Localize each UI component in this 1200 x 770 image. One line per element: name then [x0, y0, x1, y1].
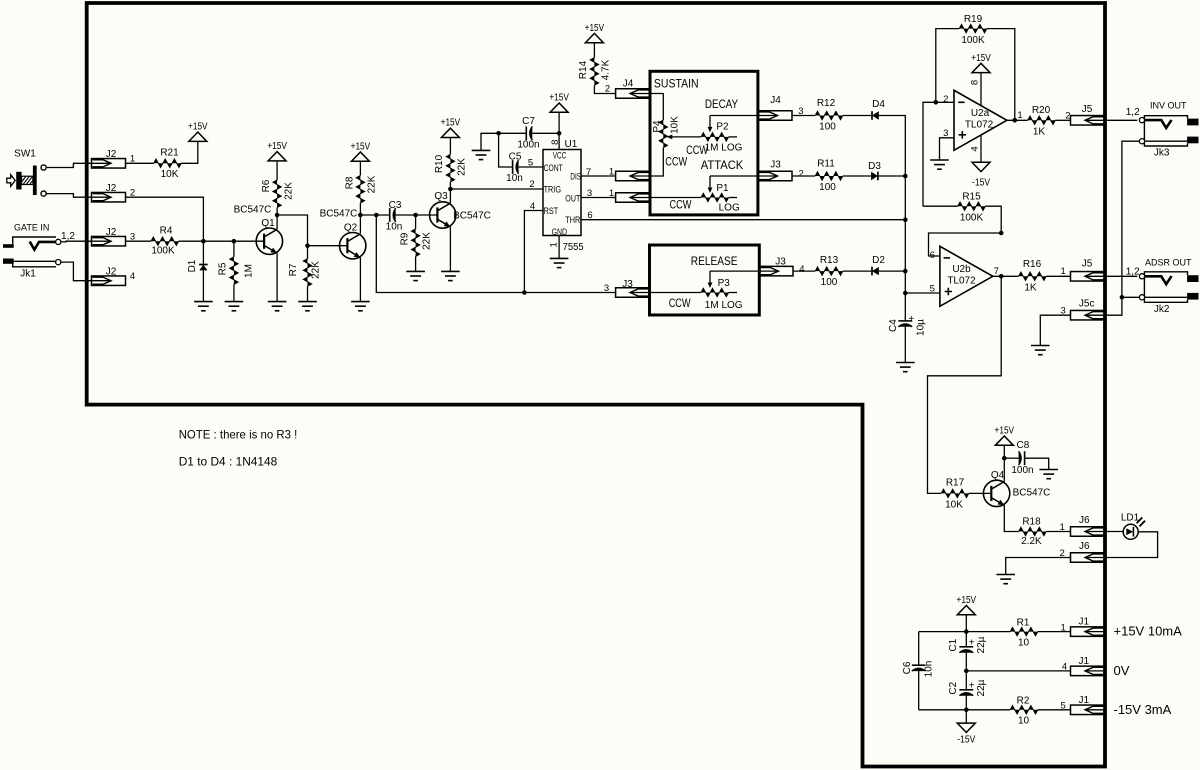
wire R12 to D4: [843, 115, 872, 117]
wire C5 to CONT: [519, 166, 543, 168]
connector J1 pin 4: [1071, 666, 1105, 676]
node Q3 collector: [448, 187, 453, 192]
svg-text:0V: 0V: [1114, 663, 1130, 678]
connector J4 pin 3: [758, 111, 792, 121]
wire Q3 emitter to ground: [449, 227, 451, 272]
svg-text:J5: J5: [1082, 104, 1093, 115]
wire U2a pin2 node: [923, 102, 954, 206]
svg-text:GATE IN: GATE IN: [14, 222, 49, 232]
connector J2 pin 1: [92, 159, 126, 169]
svg-text:TL072: TL072: [947, 275, 976, 286]
node long wire tap: [374, 213, 379, 218]
wire J6 to LED: [1105, 531, 1124, 533]
svg-text:R10: R10: [434, 154, 445, 173]
svg-text:VCC: VCC: [553, 150, 567, 160]
resistor R15: [923, 205, 958, 207]
svg-text:SW1: SW1: [14, 148, 36, 159]
svg-text:CCW: CCW: [665, 157, 687, 169]
resistor R4: [151, 237, 179, 245]
wire U2b out to R16: [993, 275, 1019, 277]
svg-text:R21: R21: [160, 148, 179, 159]
node R19 left: [934, 100, 939, 105]
svg-text:R14: R14: [578, 60, 589, 79]
svg-text:CONT: CONT: [544, 163, 564, 173]
wire U1 VCC pin 8: [558, 112, 560, 149]
wire J3 pin3 to P3: [650, 292, 701, 294]
svg-text:-15V: -15V: [972, 178, 990, 189]
svg-text:R5: R5: [217, 262, 228, 275]
svg-text:1: 1: [609, 166, 614, 177]
svg-text:ADSR OUT: ADSR OUT: [1145, 257, 1192, 267]
svg-text:1M: 1M: [243, 264, 254, 278]
svg-text:R19: R19: [964, 14, 983, 25]
ground (R7): [298, 301, 317, 303]
svg-text:R4: R4: [160, 226, 173, 237]
ground (C8): [1039, 469, 1058, 471]
svg-text:1: 1: [609, 188, 614, 199]
connector J2 pin 3: [92, 236, 126, 246]
switch SW1: [33, 166, 37, 196]
jack Jk3: [1144, 116, 1187, 130]
svg-text:P4: P4: [652, 120, 663, 133]
connector J1 pin 5: [1071, 705, 1105, 715]
svg-text:4: 4: [1062, 662, 1067, 673]
svg-text:4: 4: [130, 271, 135, 282]
svg-text:R18: R18: [1022, 516, 1041, 527]
transistor Q1: [256, 228, 282, 254]
diode D2: [871, 267, 873, 276]
ground (R9): [406, 270, 425, 272]
svg-text:2: 2: [943, 94, 948, 105]
wire Q3 collector to TRIG: [450, 188, 543, 190]
svg-text:10: 10: [1018, 716, 1030, 727]
diode D3: [877, 172, 879, 181]
svg-text:R2: R2: [1017, 696, 1030, 707]
transistor Q4: [983, 480, 1009, 506]
wiper P1: [709, 176, 711, 189]
wire J4 pin2 to P4: [650, 94, 664, 121]
node 0V rail: [964, 669, 969, 674]
svg-text:BC547C: BC547C: [1013, 488, 1051, 499]
svg-text:J4: J4: [770, 95, 781, 106]
connector J3 pin 1: [616, 193, 650, 203]
node U2b output: [999, 274, 1004, 279]
node gate junction D1: [201, 239, 206, 244]
wire U2a pin8 to +15V: [980, 73, 982, 106]
svg-text:BC547C: BC547C: [234, 204, 272, 215]
ground (Q1): [268, 301, 287, 303]
resistor R20: [1028, 116, 1056, 124]
svg-text:Jk3: Jk3: [1154, 147, 1170, 158]
connector J2 pin 4: [92, 276, 126, 286]
svg-text:CCW: CCW: [669, 298, 691, 310]
svg-text:R11: R11: [817, 158, 835, 169]
svg-text:10n: 10n: [386, 222, 403, 233]
node Q4 collector C8: [1002, 456, 1007, 461]
svg-text:+15V: +15V: [441, 118, 461, 129]
capacitor C4 10u: [898, 320, 912, 322]
svg-text:BC547C: BC547C: [320, 208, 358, 219]
wire P1 wiper to J3 pin2: [710, 175, 758, 177]
jack Jk1: [13, 237, 56, 244]
ground (U1): [550, 257, 569, 259]
potentiometer P4: [659, 120, 667, 148]
svg-text:1K: 1K: [1024, 282, 1037, 293]
svg-text:DIS: DIS: [570, 171, 581, 181]
svg-text:R17: R17: [946, 478, 965, 489]
wire summing to U2b plus: [905, 292, 940, 294]
resistor R18: [1019, 527, 1047, 535]
wire J5c to ground: [1040, 315, 1070, 345]
wire U2a pin3 to ground: [940, 138, 955, 160]
diode D1: [202, 241, 204, 271]
capacitor C6 10n: [918, 632, 920, 666]
svg-text:R9: R9: [400, 232, 411, 245]
svg-text:100K: 100K: [961, 35, 985, 46]
svg-text:U1: U1: [565, 139, 578, 150]
svg-text:LOG: LOG: [719, 203, 740, 214]
wire D4 to summing node: [879, 116, 906, 322]
label minus (U2a): [958, 101, 964, 103]
svg-text:J3: J3: [622, 279, 633, 290]
wire Q2 node to J3 pin3 (long): [376, 215, 615, 293]
svg-text:R12: R12: [817, 98, 836, 109]
ground (U2a+): [930, 159, 949, 161]
wire U2b out to R17: [928, 276, 1002, 493]
wire C5 branch: [499, 133, 513, 167]
wire P2 wiper to J4 pin3: [710, 115, 758, 117]
node summing D3: [903, 174, 908, 179]
svg-text:R16: R16: [1023, 259, 1042, 270]
svg-text:R8: R8: [344, 176, 355, 189]
svg-text:2: 2: [529, 179, 534, 190]
wire U2b feedback: [929, 233, 1002, 256]
wire R17 to Q4 base: [969, 492, 992, 494]
svg-text:C8: C8: [1017, 440, 1030, 451]
node C7/C5: [496, 131, 501, 136]
capacitor C7: [525, 126, 527, 140]
svg-text:Q2: Q2: [344, 222, 358, 233]
ground (D1): [194, 301, 213, 303]
svg-text:ATTACK: ATTACK: [701, 160, 744, 172]
wire R18 to J6: [1046, 531, 1070, 533]
svg-text:100: 100: [819, 122, 836, 133]
wire R4 to Q1 base: [179, 240, 265, 242]
svg-text:C2: C2: [948, 681, 959, 694]
wire D3 to summing node: [878, 175, 905, 177]
svg-text:C7: C7: [522, 116, 535, 127]
svg-text:1M LOG: 1M LOG: [705, 142, 743, 153]
connector J4 pin 2: [616, 89, 650, 99]
node Q2 collector: [358, 213, 363, 218]
wire Q1 collector to R7: [277, 215, 307, 259]
wire Q1 collector: [276, 215, 278, 229]
connector J3 pin 2: [758, 171, 792, 181]
svg-text:10: 10: [1018, 637, 1030, 648]
wire Jk1 sleeve to J2 pin4: [61, 262, 92, 281]
node U2b feedback: [999, 231, 1004, 236]
wire SW1 bottom to J2 pin2: [47, 194, 92, 198]
transistor Q2: [340, 233, 366, 259]
svg-text:J3: J3: [770, 160, 781, 171]
wire Q4 collector: [1003, 458, 1005, 481]
node R19 output: [1013, 118, 1018, 123]
wire Q2 collector to C3: [360, 214, 389, 216]
svg-text:+15V: +15V: [188, 122, 208, 133]
svg-text:+15V 10mA: +15V 10mA: [1114, 624, 1183, 639]
resistor R14: [593, 43, 595, 58]
wire R2 to J1 pin5: [1038, 709, 1071, 711]
svg-text:TL072: TL072: [965, 120, 994, 131]
svg-text:R6: R6: [261, 179, 272, 192]
node R7 tap to Q2 base: [305, 243, 310, 248]
svg-text:1M LOG: 1M LOG: [705, 300, 743, 311]
svg-text:+15V: +15V: [995, 426, 1015, 437]
connector J4 pin 1: [616, 171, 650, 181]
wire J5 to Jk2 tip: [1105, 275, 1138, 277]
svg-text:22K: 22K: [283, 182, 294, 200]
svg-text:100K: 100K: [151, 245, 175, 256]
connector J6 pin 1: [1071, 527, 1105, 537]
wire J3 pin4 to R13: [793, 270, 815, 272]
capacitor C2 22u: [959, 689, 973, 691]
svg-text:-15V 3mA: -15V 3mA: [1114, 702, 1172, 717]
svg-text:R15: R15: [962, 192, 981, 203]
resistor R17: [941, 489, 969, 497]
svg-text:C5: C5: [509, 151, 522, 162]
op-amp U2b: [940, 246, 993, 306]
transistor Q3: [430, 202, 456, 228]
svg-text:J5c: J5c: [1079, 298, 1095, 309]
svg-text:+: +: [908, 314, 914, 325]
svg-text:5: 5: [930, 284, 935, 295]
wire U2a out to R20: [1007, 119, 1028, 121]
svg-text:J3: J3: [775, 256, 786, 267]
resistor R9: [415, 215, 417, 229]
wiper P2: [709, 116, 711, 128]
svg-text:P1: P1: [716, 183, 729, 194]
svg-text:+15V: +15V: [549, 93, 569, 104]
label minus (U2b): [944, 257, 950, 259]
wire 0V rail: [966, 670, 1070, 672]
connector J5c pin 3: [1071, 310, 1105, 320]
resistor R12: [815, 111, 843, 119]
wire Q1 emitter to ground: [276, 253, 278, 302]
svg-text:100K: 100K: [960, 213, 984, 224]
svg-text:R7: R7: [288, 263, 299, 276]
svg-text:DECAY: DECAY: [705, 99, 738, 111]
wire DIS to J4 pin1: [581, 175, 616, 177]
svg-text:C3: C3: [389, 200, 402, 211]
resistor R19: [936, 29, 959, 103]
svg-text:Jk1: Jk1: [20, 269, 36, 280]
panel box RELEASE: [650, 245, 760, 315]
wire Jk2 sleeve: [1122, 296, 1140, 298]
wiper P3: [709, 271, 711, 283]
svg-text:Jk2: Jk2: [1154, 304, 1170, 315]
connector J5 pin 2: [1071, 116, 1105, 126]
svg-text:J1: J1: [1079, 656, 1090, 667]
node C3/R9/Q3: [413, 213, 418, 218]
wire C3 to Q3 base: [396, 214, 438, 216]
resistor R11: [815, 172, 843, 180]
svg-text:+15V: +15V: [351, 142, 371, 153]
svg-text:RST: RST: [544, 206, 559, 216]
resistor R7: [303, 259, 311, 287]
svg-text:J5: J5: [1082, 259, 1093, 270]
svg-text:22µ: 22µ: [976, 679, 987, 696]
wire C7 right to VCC: [532, 132, 559, 134]
svg-text:U2b: U2b: [952, 264, 971, 275]
svg-text:P2: P2: [716, 121, 729, 132]
node +15V rail: [964, 629, 969, 634]
svg-text:2: 2: [605, 84, 610, 95]
node summing to U2b+: [903, 291, 908, 296]
svg-text:J6: J6: [1079, 515, 1090, 526]
svg-text:22µ: 22µ: [976, 636, 987, 653]
svg-text:1K: 1K: [1033, 127, 1046, 138]
jack Jk2: [1144, 272, 1187, 286]
resistor R21: [154, 159, 182, 167]
connector J2 pin 2: [92, 192, 126, 202]
svg-text:THR: THR: [565, 215, 580, 225]
svg-text:C6: C6: [902, 661, 913, 674]
svg-text:10K: 10K: [670, 116, 681, 134]
resistor R5: [233, 241, 235, 257]
svg-text:4: 4: [799, 264, 804, 275]
svg-text:J2: J2: [106, 183, 117, 194]
node VCC/C7: [557, 131, 562, 136]
panel box SUSTAIN: [650, 71, 758, 215]
wire OUT to J3 pin1: [581, 197, 616, 199]
svg-text:+15V: +15V: [585, 23, 605, 34]
svg-text:10µ: 10µ: [915, 319, 926, 336]
node Jk2 sleeve: [1120, 295, 1125, 300]
wire J4 pin3 to R12: [792, 115, 815, 117]
svg-text:R20: R20: [1032, 105, 1051, 116]
capacitor C5: [512, 160, 514, 174]
svg-text:SUSTAIN: SUSTAIN: [654, 78, 699, 90]
wire RST branch: [524, 211, 543, 293]
svg-text:R1: R1: [1017, 617, 1030, 628]
svg-text:6: 6: [930, 250, 935, 261]
wire J6 pin2 to ground: [1006, 558, 1071, 575]
svg-text:J2: J2: [106, 227, 117, 238]
svg-text:LD1: LD1: [1121, 512, 1140, 523]
wire D2 to summing node: [879, 270, 906, 272]
potentiometer P2: [701, 133, 729, 141]
wire R21 to +15V: [181, 141, 198, 163]
svg-text:3: 3: [604, 283, 609, 294]
wire C7 left to ground: [481, 133, 526, 150]
wire Q2 collector: [359, 215, 361, 234]
svg-text:NOTE : there is no R3 !: NOTE : there is no R3 !: [179, 427, 298, 441]
svg-text:1: 1: [1061, 622, 1066, 633]
resistor R10: [449, 182, 451, 189]
svg-text:+: +: [969, 681, 975, 692]
wire +15V rail: [919, 631, 1011, 633]
wire LED to J6 pin2: [1105, 532, 1158, 558]
svg-text:D1: D1: [187, 259, 198, 272]
wire J2 pin1 to R21: [126, 162, 154, 164]
connector J6 pin 2: [1071, 553, 1105, 563]
wire Jk1 tip to J2 pin3: [61, 240, 92, 243]
svg-text:10K: 10K: [945, 499, 963, 510]
wire P3 wiper to J3 pin4: [710, 270, 759, 272]
wire SW1 top to J2 pin1: [47, 163, 92, 167]
svg-text:D4: D4: [872, 99, 885, 110]
svg-text:22K: 22K: [456, 158, 467, 176]
svg-text:1: 1: [1017, 110, 1022, 121]
svg-text:Q1: Q1: [261, 218, 275, 229]
svg-text:1: 1: [1061, 266, 1066, 277]
resistor R16: [1019, 272, 1047, 280]
wire R16 to J5: [1046, 275, 1070, 277]
svg-text:J2: J2: [106, 149, 117, 160]
svg-text:1: 1: [549, 242, 560, 247]
svg-text:7555: 7555: [563, 242, 584, 253]
svg-text:J1: J1: [1079, 695, 1090, 706]
svg-text:C4: C4: [888, 319, 899, 332]
resistor R13: [815, 267, 843, 275]
svg-text:Q3: Q3: [434, 191, 448, 202]
svg-text:100: 100: [819, 182, 836, 193]
svg-text:100n: 100n: [517, 139, 539, 150]
svg-text:22K: 22K: [421, 232, 432, 250]
power -15V (supply): [965, 710, 967, 723]
svg-text:100: 100: [821, 277, 838, 288]
svg-text:BC547C: BC547C: [453, 211, 491, 222]
IC U1 7555 box: [543, 150, 581, 236]
resistor R1: [1010, 627, 1038, 635]
svg-text:5: 5: [1061, 701, 1066, 712]
wire Q3 collector: [449, 189, 451, 203]
power -15V (U2a): [980, 135, 982, 162]
svg-text:1: 1: [1060, 522, 1065, 533]
svg-text:INV OUT: INV OUT: [1150, 100, 1187, 110]
svg-text:10n: 10n: [506, 173, 523, 184]
wire R7 node to Q2 base: [308, 245, 348, 247]
resistor R8: [359, 203, 361, 215]
capacitor C3: [389, 208, 391, 222]
svg-text:U2a: U2a: [971, 108, 990, 119]
ground (Q3): [441, 270, 460, 272]
ground (Q2): [351, 301, 370, 303]
svg-text:P3: P3: [718, 278, 731, 289]
svg-text:C1: C1: [948, 638, 959, 651]
wire J5 to Jk3 tip: [1105, 119, 1138, 121]
wire R13 to D2: [843, 270, 872, 272]
capacitor C8: [1004, 457, 1018, 459]
op-amp U2a: [954, 90, 1007, 150]
potentiometer P1: [701, 193, 729, 201]
potentiometer P3: [701, 288, 729, 296]
resistor R2: [1010, 706, 1038, 714]
svg-text:4: 4: [969, 146, 980, 151]
label plus (U2a): [959, 131, 966, 138]
wire R20 to J5: [1055, 119, 1070, 121]
svg-text:D2: D2: [872, 255, 885, 266]
wire U1 GND pin: [558, 236, 560, 259]
svg-text:D1 to D4 : 1N4148: D1 to D4 : 1N4148: [179, 454, 278, 468]
node gate junction R5: [232, 239, 237, 244]
wire J3 pin2 to R11: [792, 175, 815, 177]
wiper P4: [667, 135, 673, 140]
svg-text:-15V: -15V: [957, 734, 975, 745]
ground (C7): [472, 149, 491, 151]
ground (J5c): [1031, 345, 1050, 347]
diode D4: [871, 111, 873, 120]
